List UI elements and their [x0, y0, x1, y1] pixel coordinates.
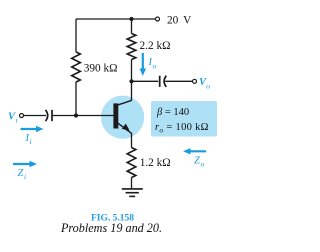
junction dot base/bias: [74, 113, 78, 117]
ground: [122, 189, 143, 197]
svg-text:Problems 19 and 20.: Problems 19 and 20.: [60, 221, 162, 235]
svg-text:Z: Z: [194, 156, 200, 167]
resistor RC 2.2k: [127, 34, 136, 60]
parameter box (beta, ro): [151, 101, 217, 137]
resistor RE 1.2k: [127, 148, 136, 178]
wire emitter: [131, 133, 133, 148]
svg-text:20 V: 20 V: [167, 15, 192, 27]
svg-text:i: i: [30, 137, 32, 146]
capacitor C2: [159, 76, 161, 87]
wire collector branch upper: [131, 19, 133, 34]
capacitor C1: [46, 110, 48, 121]
junction dot top rail: [129, 17, 133, 21]
wire input to base: [52, 115, 114, 117]
wire left branch lower: [75, 82, 77, 115]
wire collector branch lower: [131, 60, 133, 101]
terminal Vo: [193, 79, 197, 83]
svg-text:β = 140: β = 140: [156, 107, 189, 118]
wire input left: [24, 115, 47, 117]
svg-text:i: i: [24, 172, 26, 181]
wire left branch upper: [75, 19, 77, 52]
current arrow Io: [140, 53, 146, 76]
resistor RB 390k: [72, 52, 81, 82]
svg-text:390 kΩ: 390 kΩ: [84, 62, 118, 74]
wire to ground: [131, 178, 133, 189]
current arrow Ii: [21, 126, 44, 132]
transistor Q1 symbol: [113, 100, 131, 133]
svg-text:2.2 kΩ: 2.2 kΩ: [140, 40, 171, 52]
impedance arrow Zi: [13, 161, 37, 167]
impedance arrow Zo: [183, 148, 206, 154]
junction dot collector/output: [129, 79, 133, 83]
svg-text:Z: Z: [18, 168, 24, 179]
terminal 20V: [156, 17, 160, 21]
wire cap to Vo terminal: [165, 80, 192, 82]
svg-text:i: i: [16, 116, 18, 125]
svg-text:1.2 kΩ: 1.2 kΩ: [140, 157, 171, 169]
transistor Q1 highlight circle: [101, 96, 144, 139]
svg-text:o: o: [153, 62, 157, 71]
svg-text:o: o: [201, 160, 205, 169]
svg-text:ro = 100 kΩ: ro = 100 kΩ: [155, 122, 209, 135]
wire top rail: [76, 18, 155, 20]
terminal Vi: [20, 114, 24, 118]
wire output: [132, 80, 159, 82]
svg-text:o: o: [206, 81, 210, 90]
